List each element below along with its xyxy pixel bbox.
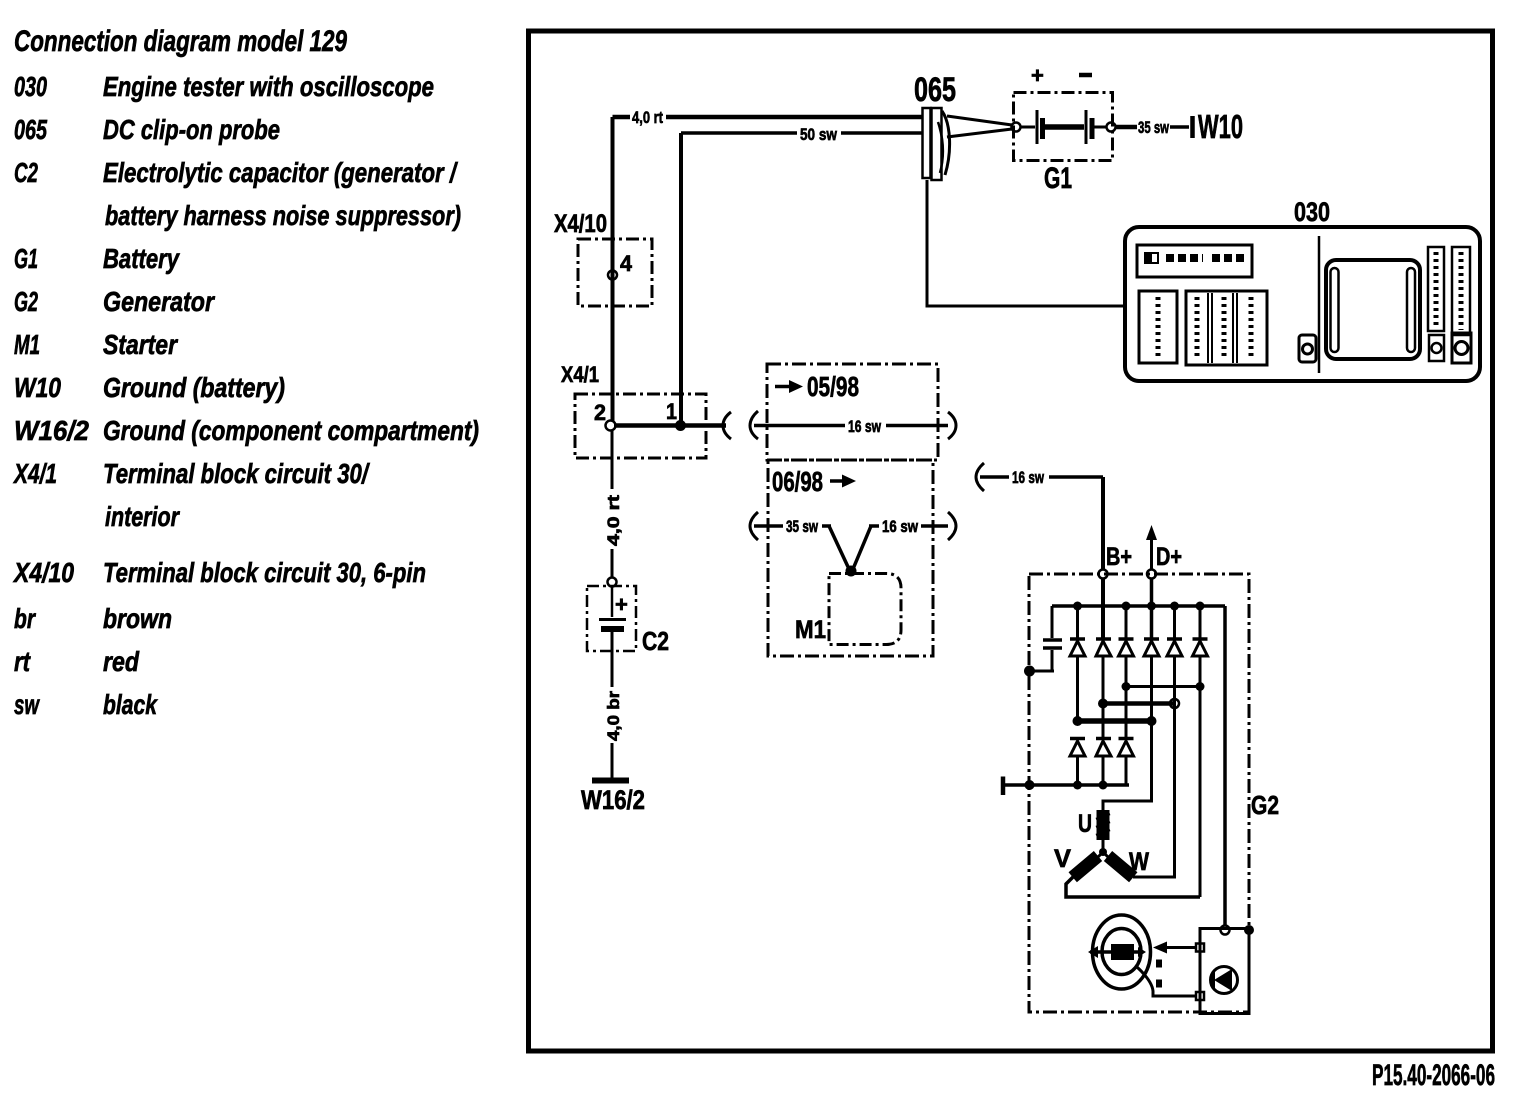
node on G2 frame left — [1024, 666, 1035, 677]
wire diode4 column to stator U — [1103, 721, 1152, 810]
svg-text:Terminal block circuit 30, 6-p: Terminal block circuit 30, 6-pin — [103, 557, 426, 588]
svg-text:G2: G2 — [1251, 790, 1279, 820]
svg-text:M1: M1 — [14, 329, 40, 360]
svg-text:X4/10: X4/10 — [554, 210, 607, 238]
ground terminal at generator — [1001, 777, 1006, 796]
svg-text:Engine tester with oscilloscop: Engine tester with oscilloscope — [103, 71, 434, 102]
svg-text:Generator: Generator — [103, 286, 216, 317]
wire probe to tester 030 — [927, 180, 1125, 306]
harness junction box 06/98 — [768, 460, 933, 656]
svg-text:W10: W10 — [1198, 108, 1243, 145]
svg-text:G2: G2 — [14, 286, 38, 317]
slip ring marks — [1156, 960, 1162, 968]
wire X4/1 pin2 down to capacitor C2 — [611, 430, 614, 578]
svg-text:+: + — [615, 592, 628, 617]
regulator zener symbol — [1211, 967, 1238, 994]
svg-text:G1: G1 — [1044, 162, 1072, 195]
svg-text:Connection diagram model 129: Connection diagram model 129 — [14, 25, 347, 58]
svg-text:1: 1 — [666, 399, 677, 424]
svg-text:C2: C2 — [642, 626, 669, 656]
svg-text:065: 065 — [914, 71, 956, 109]
starter M1 box — [795, 574, 901, 645]
diode 9 (exciter row) — [1119, 687, 1134, 786]
diode 1 (top row) — [1070, 606, 1085, 721]
wire B+ into rectifier bus — [1101, 579, 1105, 640]
svg-text:W16/2: W16/2 — [14, 415, 89, 446]
svg-text:M1: M1 — [795, 616, 826, 644]
svg-text:interior: interior — [105, 501, 181, 532]
svg-text:35 sw: 35 sw — [786, 517, 819, 536]
stator star point — [1099, 848, 1107, 856]
phase bus W (connects diodes 2 and 5) — [1103, 701, 1175, 706]
regulator box — [1196, 925, 1254, 1014]
svg-text:35 sw: 35 sw — [1138, 118, 1170, 137]
svg-text:X4/1: X4/1 — [561, 362, 599, 387]
diode 2 (top row) — [1096, 639, 1111, 704]
splice node to starter M1 — [846, 566, 857, 577]
svg-text:Terminal block circuit 30/: Terminal block circuit 30/ — [103, 458, 371, 489]
engine tester 030 — [1125, 197, 1480, 381]
wire 4,0 rt horizontal (X4/10 feed to probe) — [613, 108, 924, 127]
connector sleeve right of 05/98 wire — [948, 412, 956, 439]
svg-text:4,0 rt: 4,0 rt — [604, 495, 623, 546]
harness junction box 05/98 — [767, 364, 938, 460]
diode 5 (top row) — [1167, 606, 1182, 704]
svg-text:4,0 br: 4,0 br — [604, 691, 623, 741]
svg-text:16 sw: 16 sw — [848, 417, 882, 436]
diode 3 (top row) — [1119, 606, 1134, 687]
svg-text:030: 030 — [14, 71, 47, 102]
connector sleeve at X4/1 output — [723, 412, 731, 439]
svg-text:X4/1: X4/1 — [13, 458, 57, 489]
svg-text:DC clip-on probe: DC clip-on probe — [103, 114, 280, 145]
svg-text:W16/2: W16/2 — [581, 785, 645, 815]
wire 16 sw through 05/98 — [754, 417, 948, 436]
svg-text:+: + — [1031, 63, 1044, 88]
connector sleeve right of 06/98 wire — [948, 512, 956, 540]
stator winding W — [1103, 704, 1175, 883]
stator winding U — [1078, 810, 1110, 852]
ground bus wire — [1005, 783, 1129, 787]
svg-text:rt: rt — [14, 646, 31, 677]
svg-text:black: black — [103, 689, 158, 720]
wire 35 sw battery to ground W10 — [1116, 118, 1190, 137]
svg-text:D+: D+ — [1156, 543, 1182, 571]
svg-text:C2: C2 — [14, 157, 38, 188]
terminal block X4/1 — [561, 362, 706, 458]
brush arrow to rotor — [1153, 942, 1196, 954]
svg-text:brown: brown — [103, 603, 172, 634]
svg-text:U: U — [1078, 810, 1092, 838]
wire C2 to ground W16/2 — [611, 632, 614, 778]
ground W16/2 — [581, 781, 645, 816]
wire top bus to regulator — [1223, 606, 1227, 925]
diode 4 (top row) — [1144, 606, 1159, 721]
suppressor capacitor in generator — [1029, 606, 1062, 671]
diode 6 (top row) — [1193, 606, 1208, 897]
ground W10 — [1193, 108, 1244, 145]
DC clip-on probe 065 — [914, 71, 1012, 180]
wire X4/1 pin2 to pin1 to connector — [614, 423, 726, 428]
terminal D+ with arrow — [1146, 525, 1182, 579]
battery G1 — [1012, 63, 1116, 195]
svg-text:Starter: Starter — [103, 329, 179, 360]
node pin 1 junction — [675, 420, 686, 431]
svg-text:030: 030 — [1294, 197, 1330, 227]
svg-text:G1: G1 — [14, 243, 38, 274]
svg-text:065: 065 — [14, 114, 47, 145]
wire 35 sw / 16 sw with splice to starter — [754, 517, 948, 569]
rectifier top bus — [1052, 604, 1225, 608]
svg-text:50 sw: 50 sw — [800, 125, 838, 144]
border frame — [529, 31, 1493, 1051]
wire vertical circuit 30 (through X4/10 pin 4 down to X4/1 pin 2) — [611, 117, 615, 421]
svg-text:Ground (component compartment): Ground (component compartment) — [103, 415, 479, 446]
wire 50 sw horizontal (to probe) — [681, 125, 923, 144]
diode 8 (exciter row) — [1096, 704, 1111, 786]
label 4,0 br vertical — [601, 687, 623, 743]
svg-text:Battery: Battery — [103, 243, 180, 274]
svg-text:Ground (battery): Ground (battery) — [103, 372, 285, 403]
svg-text:4: 4 — [620, 251, 633, 276]
svg-text:06/98: 06/98 — [772, 466, 823, 497]
connector sleeve left of 05/98 wire — [750, 411, 758, 439]
svg-text:battery harness noise suppress: battery harness noise suppressor) — [105, 200, 461, 231]
svg-text:16 sw: 16 sw — [882, 517, 919, 536]
svg-text:P15.40-2066-06: P15.40-2066-06 — [1372, 1059, 1495, 1092]
generator G2 box — [1029, 574, 1279, 1012]
svg-text:05/98: 05/98 — [807, 371, 859, 402]
svg-text:B+: B+ — [1106, 543, 1132, 571]
svg-text:sw: sw — [14, 689, 40, 720]
svg-text:X4/10: X4/10 — [12, 557, 74, 588]
connector sleeve on 16 sw generator feed — [976, 463, 984, 491]
svg-text:br: br — [14, 603, 37, 634]
svg-text:2: 2 — [594, 400, 606, 425]
stator winding V — [1054, 845, 1200, 897]
node dots on top bus — [1073, 602, 1082, 611]
terminal B+ — [1099, 543, 1133, 579]
svg-text:16 sw: 16 sw — [1012, 468, 1045, 487]
node pin 2 circle — [606, 421, 616, 431]
wire vertical from 50 sw down to X4/1 pin 1 — [679, 133, 683, 424]
svg-text:red: red — [103, 646, 140, 677]
wire 16 sw to generator B+ — [980, 468, 1103, 570]
svg-text:V: V — [1054, 845, 1071, 873]
svg-text:W10: W10 — [14, 372, 61, 403]
svg-text:Electrolytic capacitor (genera: Electrolytic capacitor (generator / — [103, 157, 459, 188]
label 4,0 rt vertical — [601, 489, 623, 549]
wire D+ into rectifier bus — [1150, 579, 1154, 640]
svg-text:4,0 rt: 4,0 rt — [632, 108, 663, 127]
phase bus U thick (connects diodes 1 and 4) — [1078, 718, 1153, 724]
capacitor C2 — [587, 578, 669, 657]
rotor field winding — [1088, 915, 1195, 996]
terminal block X4/10 — [554, 210, 652, 306]
phase bus V (connects diodes 3 and 6) — [1126, 685, 1200, 688]
diode 7 (exciter row) — [1070, 739, 1085, 786]
connector sleeve left of 06/98 wire — [750, 512, 758, 540]
